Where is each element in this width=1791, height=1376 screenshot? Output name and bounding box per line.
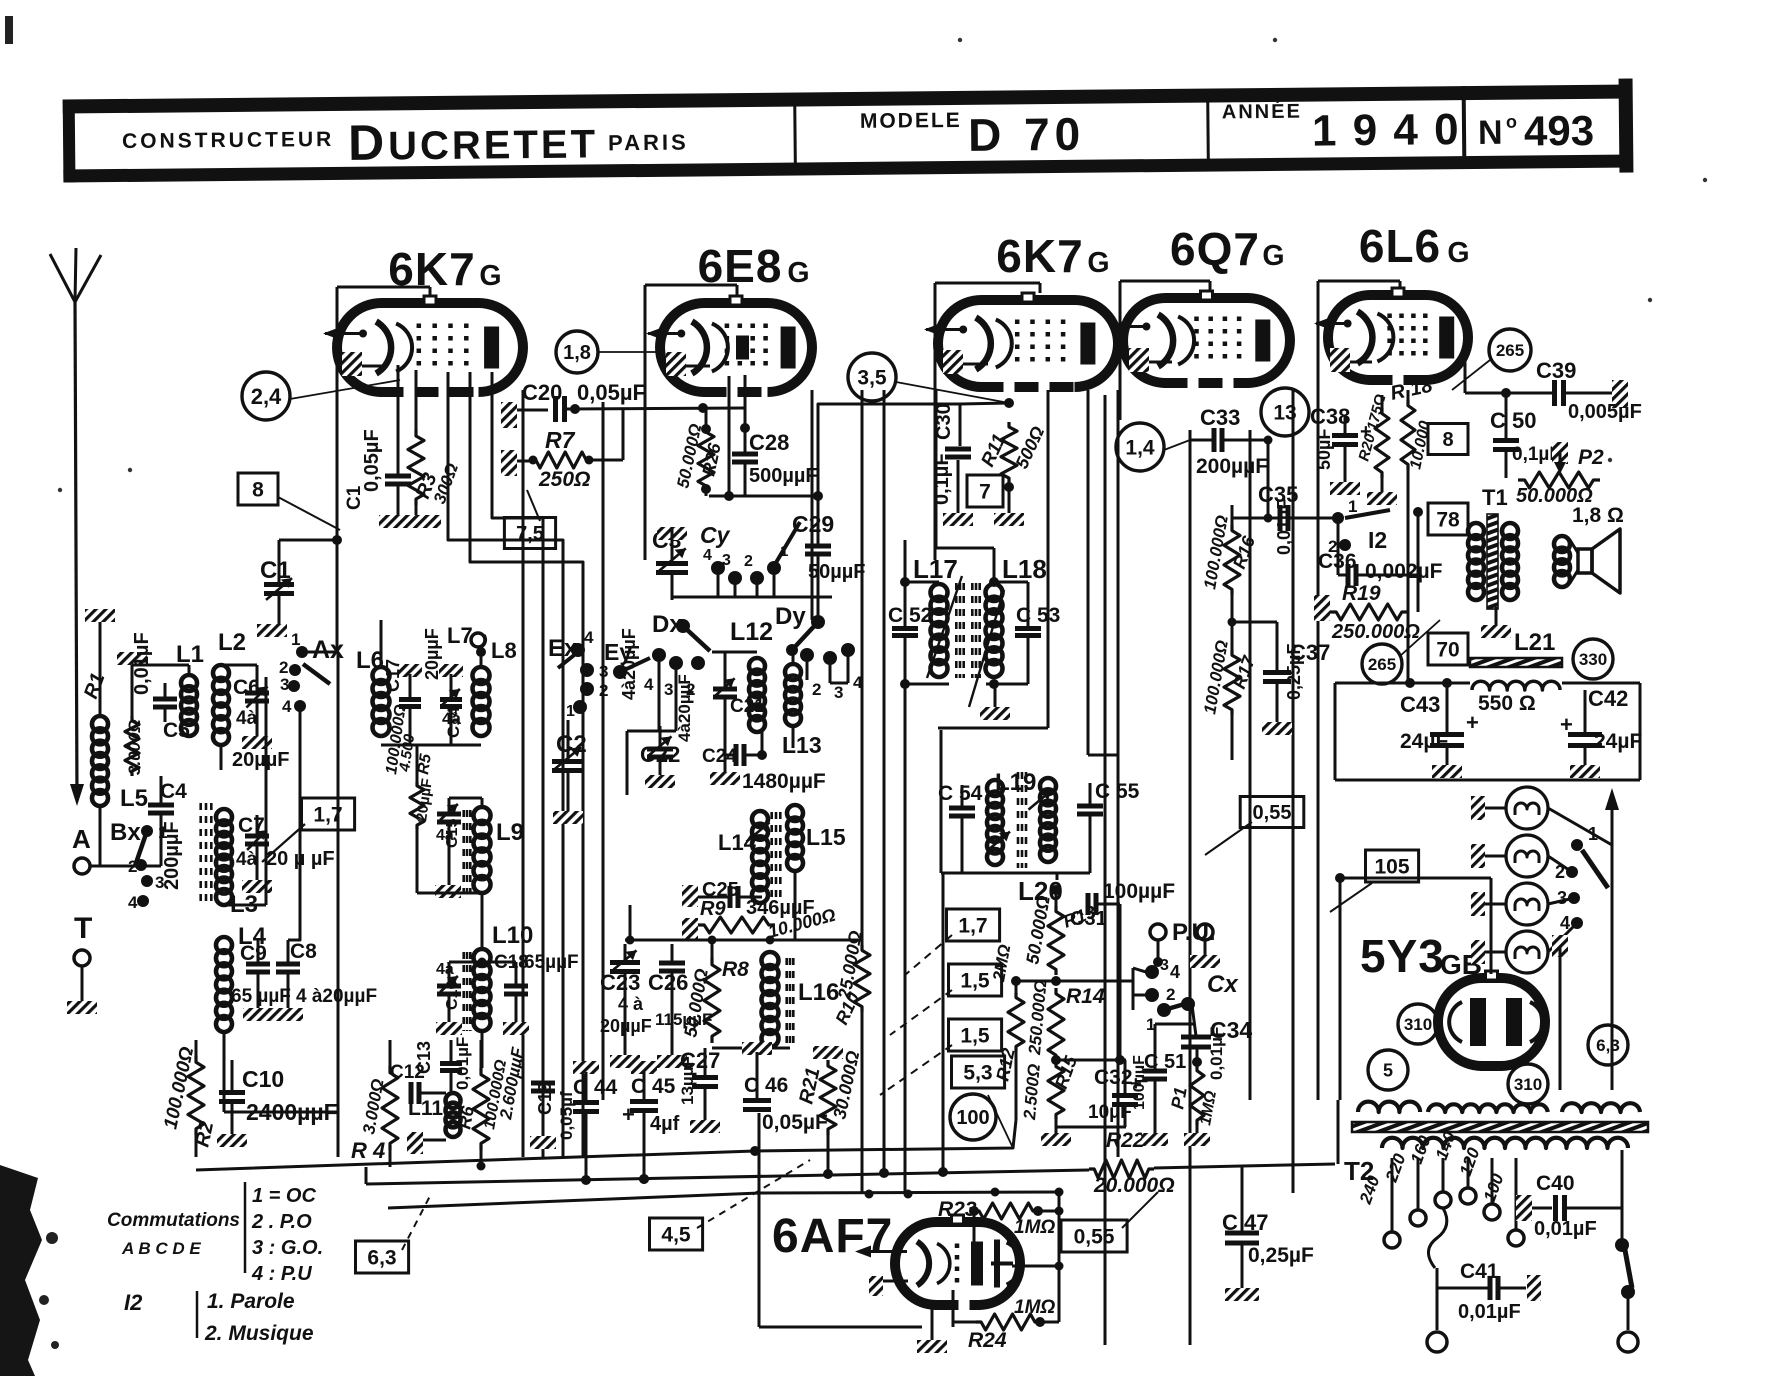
svg-text:0,01µF: 0,01µF — [1274, 499, 1294, 555]
svg-text:P2: P2 — [1578, 446, 1604, 469]
svg-text:78: 78 — [1436, 509, 1460, 532]
svg-text:2400µµF: 2400µµF — [246, 1099, 338, 1125]
svg-text:24µF: 24µF — [1400, 730, 1448, 753]
svg-text:3: 3 — [664, 680, 673, 699]
svg-text:Commutations: Commutations — [107, 1210, 240, 1231]
svg-text:G: G — [787, 257, 809, 289]
svg-text:70: 70 — [1436, 639, 1459, 662]
svg-text:0,005µF: 0,005µF — [1568, 401, 1642, 423]
svg-text:1,5: 1,5 — [960, 1025, 990, 1048]
svg-text:C33: C33 — [1200, 405, 1240, 430]
svg-text:1 = OC: 1 = OC — [252, 1185, 316, 1207]
svg-text:I2: I2 — [124, 1290, 143, 1315]
svg-text:R7: R7 — [545, 427, 576, 453]
svg-text:6AF7: 6AF7 — [772, 1210, 893, 1263]
svg-text:265: 265 — [1496, 341, 1524, 360]
svg-text:310: 310 — [1514, 1075, 1542, 1094]
svg-text:50µF: 50µF — [1314, 429, 1334, 470]
svg-text:0,55: 0,55 — [1074, 1226, 1115, 1249]
svg-text:4à20µµF: 4à20µµF — [675, 674, 694, 742]
svg-text:1: 1 — [566, 703, 575, 720]
svg-text:200µµF: 200µµF — [161, 821, 183, 890]
svg-text:0,25µF: 0,25µF — [1248, 1244, 1314, 1267]
svg-text:4à: 4à — [236, 849, 258, 870]
svg-text:7: 7 — [979, 481, 991, 504]
svg-text:A B C D E: A B C D E — [121, 1239, 201, 1258]
svg-text:330: 330 — [1579, 650, 1607, 669]
svg-text:0,25µF: 0,25µF — [1284, 644, 1304, 700]
svg-text:265: 265 — [1368, 655, 1396, 674]
svg-text:R8: R8 — [722, 958, 749, 981]
svg-text:20µµF: 20µµF — [232, 749, 290, 771]
svg-text:500µµF: 500µµF — [749, 465, 818, 487]
svg-text:C 53: C 53 — [1016, 604, 1060, 627]
svg-text:L10: L10 — [492, 922, 533, 949]
svg-text:4,5: 4,5 — [661, 1224, 691, 1247]
svg-text:2: 2 — [744, 553, 753, 570]
svg-text:G: G — [1087, 247, 1109, 279]
svg-text:Cy: Cy — [700, 522, 731, 548]
svg-text:R19: R19 — [1342, 582, 1381, 605]
svg-text:2 . P.O: 2 . P.O — [251, 1211, 312, 1233]
svg-text:4à: 4à — [436, 961, 454, 978]
svg-text:D: D — [348, 114, 385, 170]
svg-text:L12: L12 — [730, 618, 773, 646]
svg-text:8: 8 — [1442, 429, 1453, 451]
svg-text:C43: C43 — [1400, 692, 1440, 717]
svg-text:1480µµF: 1480µµF — [742, 770, 826, 793]
svg-text:4 : P.U: 4 : P.U — [251, 1263, 312, 1285]
svg-text:L16: L16 — [798, 979, 839, 1006]
svg-text:2: 2 — [599, 681, 608, 700]
svg-text:L5: L5 — [120, 785, 148, 812]
svg-text:5Y3: 5Y3 — [1360, 930, 1445, 982]
svg-text:4: 4 — [703, 547, 712, 564]
svg-text:200µµF: 200µµF — [1196, 455, 1268, 478]
svg-text:6K7: 6K7 — [996, 230, 1083, 282]
svg-text:0,01µF: 0,01µF — [453, 1037, 472, 1090]
svg-text:4: 4 — [1170, 962, 1180, 982]
svg-text:0,05µF: 0,05µF — [361, 429, 383, 492]
svg-text:310: 310 — [1404, 1015, 1432, 1034]
svg-text:L7: L7 — [447, 623, 473, 648]
svg-text:C29: C29 — [792, 511, 834, 537]
svg-text:P.U.: P.U. — [1172, 919, 1216, 946]
svg-text:C 44: C 44 — [573, 1076, 618, 1099]
svg-text:C39: C39 — [1536, 358, 1576, 383]
svg-text:5,3: 5,3 — [963, 1062, 992, 1085]
svg-text:+: + — [1560, 712, 1573, 737]
svg-text:3.000Ω: 3.000Ω — [125, 719, 144, 775]
svg-text:Dy: Dy — [775, 603, 806, 630]
svg-text:24µF: 24µF — [1594, 730, 1642, 753]
svg-text:C9: C9 — [240, 942, 267, 965]
svg-text:C 55: C 55 — [1095, 780, 1140, 803]
svg-text:C41: C41 — [1460, 1260, 1499, 1283]
svg-text:R24: R24 — [968, 1329, 1007, 1352]
svg-text:115µµF: 115µµF — [655, 1010, 712, 1029]
svg-text:R14: R14 — [1066, 985, 1105, 1008]
svg-text:P1: P1 — [1167, 1086, 1191, 1111]
svg-text:L17: L17 — [913, 554, 958, 584]
svg-text:D 70: D 70 — [968, 108, 1086, 161]
svg-text:7,5: 7,5 — [516, 523, 544, 545]
svg-text:4: 4 — [128, 893, 138, 912]
svg-text:G: G — [1262, 240, 1284, 272]
svg-text:L9: L9 — [496, 819, 524, 846]
svg-text:C40: C40 — [1536, 1172, 1575, 1195]
svg-text:C21: C21 — [730, 696, 765, 717]
svg-text:3,5: 3,5 — [857, 367, 887, 390]
svg-text:C 46: C 46 — [744, 1074, 788, 1097]
svg-text:L2: L2 — [218, 629, 246, 656]
svg-text:1,5: 1,5 — [960, 970, 990, 993]
svg-text:2,4: 2,4 — [251, 384, 282, 409]
svg-text:6,3: 6,3 — [367, 1247, 396, 1270]
svg-text:C 51: C 51 — [1144, 1051, 1186, 1073]
svg-text:0,55: 0,55 — [1253, 802, 1292, 824]
svg-text:2. Musique: 2. Musique — [204, 1322, 314, 1345]
svg-text:0,1µF: 0,1µF — [931, 453, 953, 505]
svg-text:4: 4 — [644, 675, 654, 694]
svg-text:C 50: C 50 — [1490, 408, 1536, 433]
svg-text:3: 3 — [1557, 888, 1567, 908]
svg-text:I2: I2 — [1368, 527, 1387, 553]
svg-text:C19: C19 — [535, 1082, 555, 1115]
svg-text:3: 3 — [1160, 957, 1169, 974]
svg-text:L13: L13 — [782, 732, 822, 758]
svg-text:C 54: C 54 — [938, 782, 983, 805]
svg-text:8: 8 — [252, 479, 264, 502]
svg-text:1: 1 — [291, 630, 300, 649]
svg-text:4: 4 — [282, 697, 292, 716]
svg-text:4à: 4à — [236, 708, 258, 729]
svg-text:1: 1 — [1146, 1015, 1155, 1034]
svg-text:5: 5 — [1383, 1061, 1393, 1081]
svg-text:G: G — [1447, 237, 1469, 269]
svg-text:G: G — [479, 260, 501, 292]
svg-text:6Q7: 6Q7 — [1170, 223, 1260, 275]
svg-text:1: 1 — [1348, 497, 1357, 516]
svg-text:C26: C26 — [648, 970, 688, 995]
svg-text:1,8: 1,8 — [563, 342, 591, 364]
svg-text:+: + — [622, 1102, 635, 1127]
svg-text:65 µµF: 65 µµF — [231, 986, 291, 1007]
svg-text:C32: C32 — [1094, 1066, 1133, 1089]
svg-text:L21: L21 — [1514, 629, 1555, 656]
svg-text:20.000Ω: 20.000Ω — [1093, 1174, 1175, 1197]
svg-text:C42: C42 — [1588, 686, 1628, 711]
svg-text:C15: C15 — [444, 819, 461, 848]
svg-text:C20: C20 — [522, 380, 562, 405]
svg-text:C8: C8 — [290, 940, 317, 963]
svg-text:100µµF: 100µµF — [1131, 1055, 1148, 1110]
svg-text:105: 105 — [1374, 856, 1409, 879]
svg-text:1MΩ: 1MΩ — [1014, 1297, 1055, 1318]
svg-text:R22: R22 — [1106, 1129, 1145, 1152]
svg-text:1MΩ: 1MΩ — [1014, 1217, 1055, 1238]
svg-text:2: 2 — [812, 680, 821, 699]
svg-text:C14: C14 — [444, 706, 463, 738]
svg-text:+: + — [1466, 710, 1479, 735]
svg-text:R 4: R 4 — [351, 1138, 385, 1163]
svg-text:4: 4 — [584, 628, 594, 647]
svg-text:C31: C31 — [1070, 908, 1107, 930]
svg-text:PARIS: PARIS — [608, 130, 689, 156]
svg-text:C17: C17 — [383, 659, 403, 692]
svg-text:4: 4 — [853, 673, 863, 692]
svg-text:Cx: Cx — [1207, 971, 1239, 998]
svg-text:550 Ω: 550 Ω — [1478, 692, 1536, 715]
svg-text:1 9 4 0: 1 9 4 0 — [1312, 105, 1461, 155]
svg-text:0,05µF: 0,05µF — [577, 380, 646, 405]
svg-text:R9: R9 — [700, 898, 726, 920]
svg-text:L8: L8 — [491, 638, 517, 663]
svg-text:C13: C13 — [414, 1041, 434, 1074]
svg-text:C16: C16 — [444, 981, 461, 1010]
svg-text:3: 3 — [280, 675, 289, 694]
svg-text:2: 2 — [1166, 985, 1175, 1004]
svg-text:1,4: 1,4 — [1125, 437, 1155, 460]
svg-text:250Ω: 250Ω — [538, 468, 590, 491]
svg-text:C23: C23 — [600, 970, 640, 995]
svg-text:C 45: C 45 — [631, 1075, 676, 1098]
svg-text:ANNÉE: ANNÉE — [1222, 100, 1302, 124]
svg-text:4µf: 4µf — [650, 1113, 680, 1135]
svg-text:L15: L15 — [806, 824, 846, 850]
svg-text:MODELE: MODELE — [860, 109, 962, 133]
svg-text:3 : G.O.: 3 : G.O. — [252, 1237, 323, 1259]
svg-text:50µµF: 50µµF — [808, 561, 866, 583]
svg-text:L18: L18 — [1002, 554, 1047, 584]
svg-text:T1: T1 — [1482, 485, 1508, 510]
svg-text:R6: R6 — [454, 1104, 478, 1131]
svg-text:6,3: 6,3 — [1596, 1036, 1620, 1055]
svg-text:4 à: 4 à — [618, 994, 644, 1014]
svg-text:0,01µF: 0,01µF — [1207, 1027, 1226, 1080]
svg-text:0,05µf: 0,05µf — [557, 1091, 576, 1140]
svg-text:CONSTRUCTEUR: CONSTRUCTEUR — [122, 128, 334, 153]
svg-text:6L6: 6L6 — [1359, 220, 1441, 272]
svg-text:0,05µF: 0,05µF — [762, 1111, 828, 1134]
svg-text:4à20µµF: 4à20µµF — [619, 628, 639, 700]
svg-text:o: o — [1506, 112, 1517, 132]
svg-text:0,01µF: 0,01µF — [1534, 1218, 1597, 1240]
svg-text:3: 3 — [722, 552, 731, 569]
svg-text:100µµF: 100µµF — [1103, 880, 1175, 903]
svg-text:C4: C4 — [160, 780, 187, 803]
svg-text:C5: C5 — [163, 719, 190, 742]
svg-text:L14: L14 — [718, 830, 757, 855]
svg-text:C7: C7 — [238, 814, 265, 837]
svg-text:1,7: 1,7 — [958, 915, 987, 938]
svg-text:493: 493 — [1524, 107, 1595, 155]
svg-text:UCRETET: UCRETET — [388, 122, 598, 168]
svg-text:13µµF: 13µµF — [678, 1056, 697, 1105]
svg-text:13: 13 — [1273, 402, 1296, 425]
svg-text:L11: L11 — [408, 1097, 443, 1120]
svg-text:C28: C28 — [749, 430, 789, 455]
svg-text:1. Parole: 1. Parole — [207, 1290, 295, 1313]
svg-text:65µµF: 65µµF — [524, 952, 579, 973]
svg-text:0,002µF: 0,002µF — [1365, 560, 1443, 583]
svg-text:0,01µF: 0,01µF — [1458, 1301, 1521, 1323]
svg-text:1,8 Ω: 1,8 Ω — [1572, 504, 1624, 527]
svg-text:C10: C10 — [242, 1066, 284, 1092]
svg-text:100: 100 — [956, 1107, 989, 1129]
svg-text:C 52: C 52 — [888, 604, 932, 627]
svg-text:3: 3 — [834, 683, 843, 702]
svg-text:N: N — [1478, 114, 1503, 152]
svg-text:A: A — [72, 824, 91, 854]
svg-text:Bx: Bx — [110, 819, 141, 846]
svg-text:T: T — [74, 912, 92, 945]
